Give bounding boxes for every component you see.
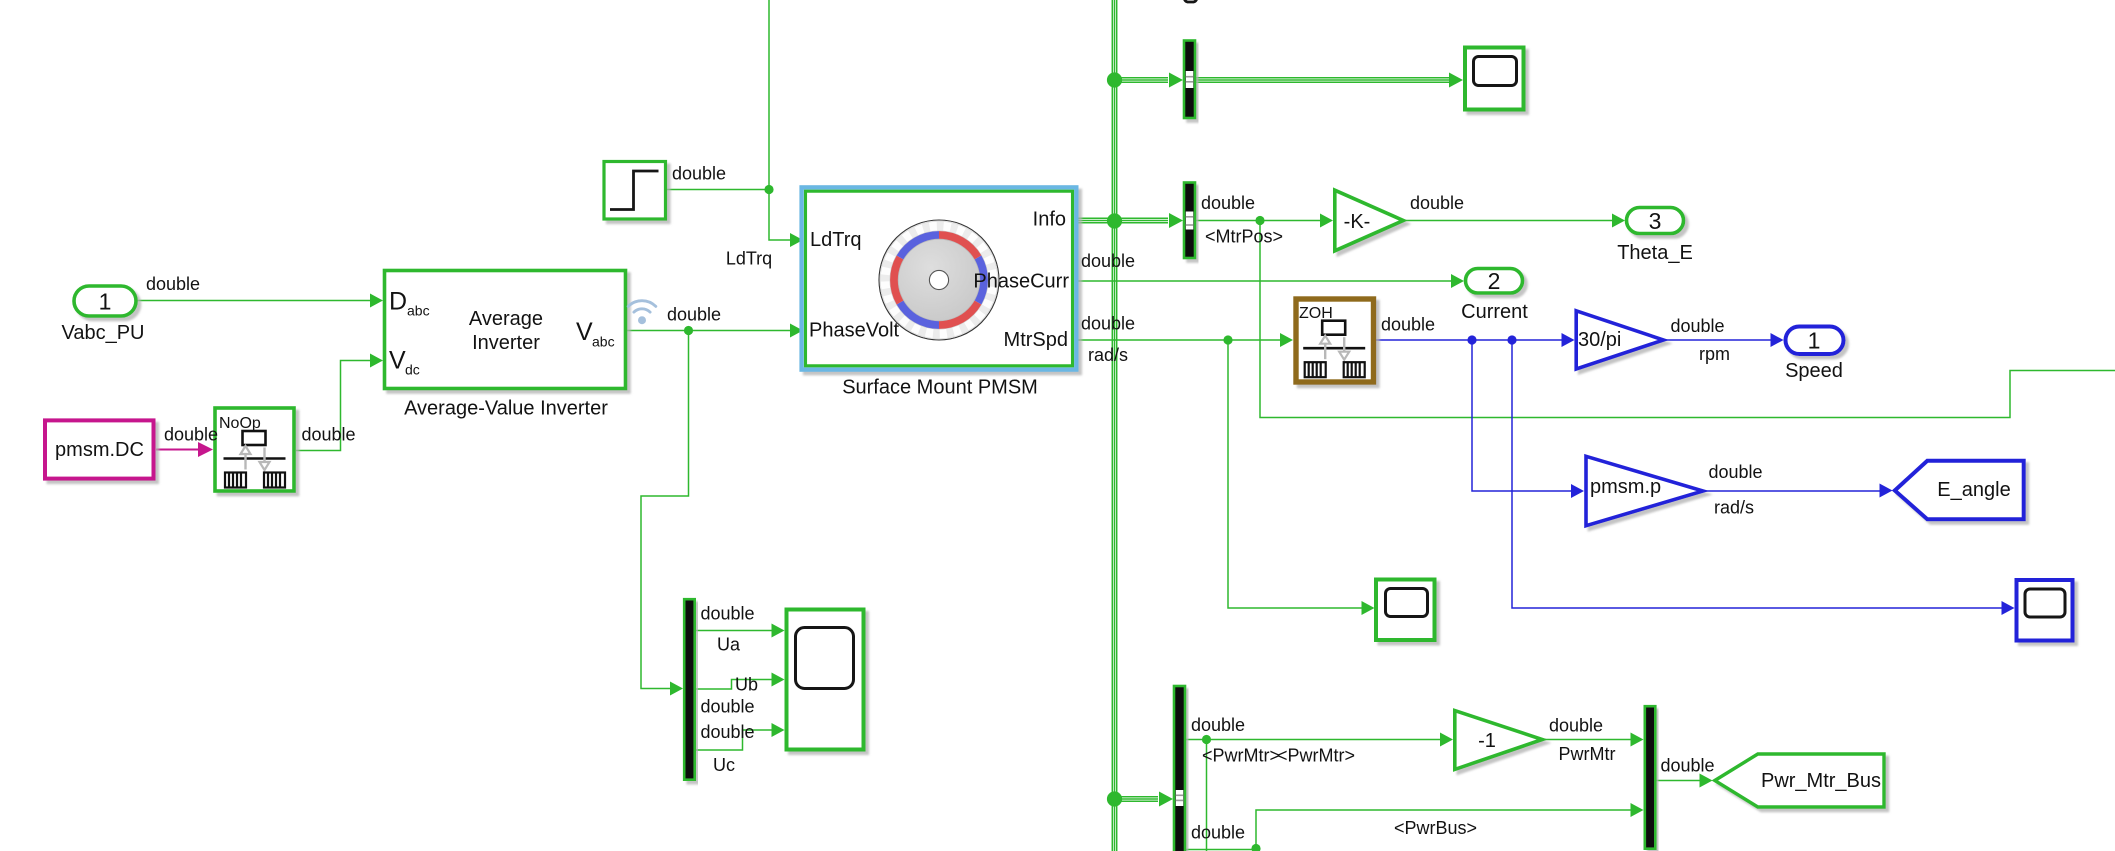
svg-text:ZOH: ZOH: [1299, 305, 1333, 322]
svg-text:rpm: rpm: [1699, 344, 1730, 364]
svg-text:double: double: [667, 305, 721, 325]
Surface Mount PMSM block outer highlight: [802, 187, 1077, 369]
junction Vabc branch: [684, 326, 693, 335]
wire step to LdTrq: [667, 189, 769, 191]
svg-text:PhaseCurr: PhaseCurr: [973, 271, 1069, 293]
svg-text:Uc: Uc: [713, 755, 735, 775]
bus junction at selector1 branch: [1107, 72, 1122, 87]
svg-text:LdTrq: LdTrq: [726, 249, 772, 269]
blue scope screen: [2025, 589, 2065, 617]
svg-text:LdTrq: LdTrq: [810, 229, 862, 251]
junction ZOH out 1: [1467, 335, 1476, 344]
svg-text:double: double: [164, 425, 218, 445]
wire junction down to LdTrq port: [769, 190, 803, 248]
BusSelector3: [1174, 686, 1185, 851]
wire MtrSpd to ZOH: [1076, 333, 1293, 347]
svg-text:pmsm.p: pmsm.p: [1590, 476, 1661, 498]
svg-text:1: 1: [1808, 327, 1821, 353]
wire MtrPos branch long route right: [1260, 221, 2115, 418]
wire PwrBus to bus creator: [1186, 803, 1644, 850]
wire from top into step junction: [768, 0, 770, 190]
svg-text:double: double: [1381, 315, 1435, 335]
svg-text:double: double: [701, 604, 755, 624]
wire bus creator to Pwr_Mtr_Bus tag: [1657, 774, 1713, 788]
svg-text:rad/s: rad/s: [1714, 498, 1754, 518]
wire MtrSpd branch to green scope: [1228, 340, 1375, 615]
wire Vabc branch down to demux: [641, 331, 689, 696]
svg-text:PhaseVolt: PhaseVolt: [809, 320, 900, 342]
Scope1: [1465, 48, 1524, 110]
bus branch to BusSelector1: [1115, 73, 1184, 88]
svg-text:Info: Info: [1033, 209, 1066, 231]
svg-text:double: double: [1661, 756, 1715, 776]
bus wire Info to vertical bus: [1076, 218, 1115, 222]
svg-text:double: double: [1191, 715, 1245, 735]
BusSelector2: [1184, 183, 1195, 259]
svg-text:NoOp: NoOp: [219, 415, 261, 432]
junction ZOH out 2: [1507, 335, 1516, 344]
svg-text:1: 1: [99, 288, 112, 314]
Surface Mount PMSM inner border: [806, 191, 1073, 366]
svg-text:30/pi: 30/pi: [1578, 329, 1621, 351]
svg-text:Surface Mount PMSM: Surface Mount PMSM: [842, 377, 1038, 399]
blue scope: [2017, 580, 2073, 641]
wire pmsm.DC to NoOp: [156, 442, 213, 457]
svg-text:double: double: [672, 164, 726, 184]
outport 1 Speed: [1786, 327, 1844, 355]
gain -K-: [1335, 190, 1404, 251]
BusSelector1 gap: [1186, 71, 1194, 88]
wire Vabc_PU to Dabc: [137, 294, 383, 308]
gain pmsm.p: [1586, 456, 1703, 525]
wire demux out Ub: [696, 673, 785, 690]
svg-text:Ub: Ub: [735, 675, 758, 695]
wire demux out Uc: [696, 723, 785, 750]
svg-text:2: 2: [1488, 268, 1501, 294]
svg-text:pmsm.DC: pmsm.DC: [55, 439, 144, 461]
wire MtrPos to -K- gain: [1196, 214, 1333, 228]
svg-text:Current: Current: [1461, 301, 1528, 323]
wire ZOH to 30/pi gain: [1376, 333, 1575, 347]
svg-text:double: double: [1191, 823, 1245, 843]
svg-text:double: double: [701, 697, 755, 717]
junction step wire: [764, 185, 773, 194]
scope Uabc: [787, 610, 864, 750]
svg-text:PwrMtr: PwrMtr: [1559, 744, 1616, 764]
svg-text:Average: Average: [469, 308, 543, 330]
BusSelector1: [1184, 41, 1195, 119]
gain 30/pi: [1576, 311, 1663, 369]
bus branch to BusSelector2: [1115, 213, 1184, 228]
wire -K- to port3 Theta_E: [1405, 214, 1626, 228]
scope Uabc screen: [796, 628, 854, 689]
svg-text:dc: dc: [405, 362, 420, 378]
svg-text:abc: abc: [592, 334, 615, 350]
junction PwrBus corner: [1251, 844, 1260, 851]
svg-text:3: 3: [1649, 208, 1662, 234]
svg-text:double: double: [1081, 314, 1135, 334]
svg-text:<PwrMtr>: <PwrMtr>: [1277, 746, 1355, 766]
wire PwrMtr branch down offscreen: [1206, 740, 1208, 851]
svg-text:V: V: [576, 318, 593, 346]
junction MtrPos branch: [1255, 216, 1264, 225]
step source block: [604, 162, 666, 220]
svg-text:E_angle: E_angle: [1937, 479, 2010, 501]
svg-text:double: double: [1709, 462, 1763, 482]
svg-text:double: double: [146, 274, 200, 294]
BusSelector3 gap: [1176, 790, 1184, 806]
svg-text:-K-: -K-: [1344, 211, 1371, 233]
wire PwrMtr to -1 gain: [1186, 733, 1453, 747]
bus junction at Info/selector2: [1107, 213, 1122, 228]
svg-text:Vabc_PU: Vabc_PU: [61, 322, 144, 344]
PMSM motor icon rotor disc: [898, 239, 980, 321]
wire 30/pi to port1 Speed: [1666, 333, 1784, 347]
pmsm.DC constant block: [45, 420, 154, 478]
svg-text:<MtrPos>: <MtrPos>: [1205, 227, 1283, 247]
svg-text:V: V: [389, 347, 406, 375]
svg-text:MtrSpd: MtrSpd: [1004, 329, 1068, 351]
green scope screen: [1386, 589, 1428, 617]
wire PhaseCurr to port2 Current: [1076, 274, 1464, 288]
goto tag E_angle: [1895, 461, 2024, 519]
junction MtrSpd branch: [1223, 335, 1232, 344]
bus junction at selector3 branch: [1107, 791, 1122, 806]
PMSM motor icon stator: [879, 220, 999, 340]
goto tag Pwr_Mtr_Bus: [1715, 754, 1884, 807]
svg-text:double: double: [701, 722, 755, 742]
wifi log icon on Vabc wire: [628, 301, 656, 312]
svg-text:Inverter: Inverter: [472, 332, 540, 354]
junction PwrMtr branch: [1202, 735, 1211, 744]
wire NoOp to Vdc: [296, 354, 383, 451]
wire demux out Ua: [696, 624, 785, 638]
svg-text:rad/s: rad/s: [1088, 345, 1128, 365]
bus branch to BusSelector3: [1115, 792, 1174, 807]
green scope (speed): [1376, 580, 1435, 641]
svg-text:Pwr_Mtr_Bus: Pwr_Mtr_Bus: [1761, 770, 1881, 792]
wire -1 gain to bus creator: [1544, 733, 1644, 747]
svg-text:double: double: [1671, 316, 1725, 336]
NoOp rate transition block: [215, 408, 294, 491]
inport 1 Vabc_PU: [74, 286, 136, 316]
step icon: [610, 171, 659, 210]
wire Vabc to PhaseVolt: [627, 324, 803, 338]
cut-off block fragment at top: [1184, 0, 1197, 2]
vertical bus wire: [1112, 0, 1116, 851]
svg-text:Average-Value Inverter: Average-Value Inverter: [404, 398, 608, 420]
svg-text:Ua: Ua: [717, 635, 741, 655]
wire pmsm.p to E_angle tag: [1704, 484, 1893, 498]
bus creator PwrMtrBus: [1645, 706, 1656, 849]
wire branch down to blue scope: [1512, 340, 2015, 615]
svg-text:double: double: [302, 425, 356, 445]
svg-text:double: double: [1549, 716, 1603, 736]
svg-text:-1: -1: [1478, 730, 1496, 752]
BusSelector2 gap: [1186, 212, 1194, 230]
ZOH rate transition block: [1296, 299, 1374, 382]
svg-text:<PwrMtr>: <PwrMtr>: [1202, 746, 1280, 766]
Average Inverter subsystem U_inv: [385, 271, 626, 389]
svg-text:D: D: [389, 288, 407, 316]
wire branch down to pmsm.p gain: [1472, 340, 1584, 498]
PMSM motor icon magnet ring (6 segments): [894, 235, 984, 325]
svg-text:double: double: [1201, 193, 1255, 213]
svg-text:<PwrBus>: <PwrBus>: [1394, 818, 1477, 838]
outport 2 Current: [1466, 269, 1523, 294]
demux Uabc: [684, 599, 695, 780]
NoOp icon: [224, 431, 286, 488]
svg-text:double: double: [1410, 193, 1464, 213]
PMSM motor icon hub: [929, 270, 948, 289]
svg-text:Speed: Speed: [1785, 360, 1843, 382]
svg-text:abc: abc: [407, 303, 430, 319]
bus wire BusSelector1 to Scope1: [1196, 73, 1463, 88]
ZOH icon: [1303, 321, 1365, 378]
svg-text:double: double: [1081, 251, 1135, 271]
Scope1 screen: [1474, 57, 1517, 86]
outport 3 Theta_E: [1627, 208, 1684, 234]
svg-text:Theta_E: Theta_E: [1617, 242, 1693, 264]
gain -1: [1455, 711, 1543, 770]
